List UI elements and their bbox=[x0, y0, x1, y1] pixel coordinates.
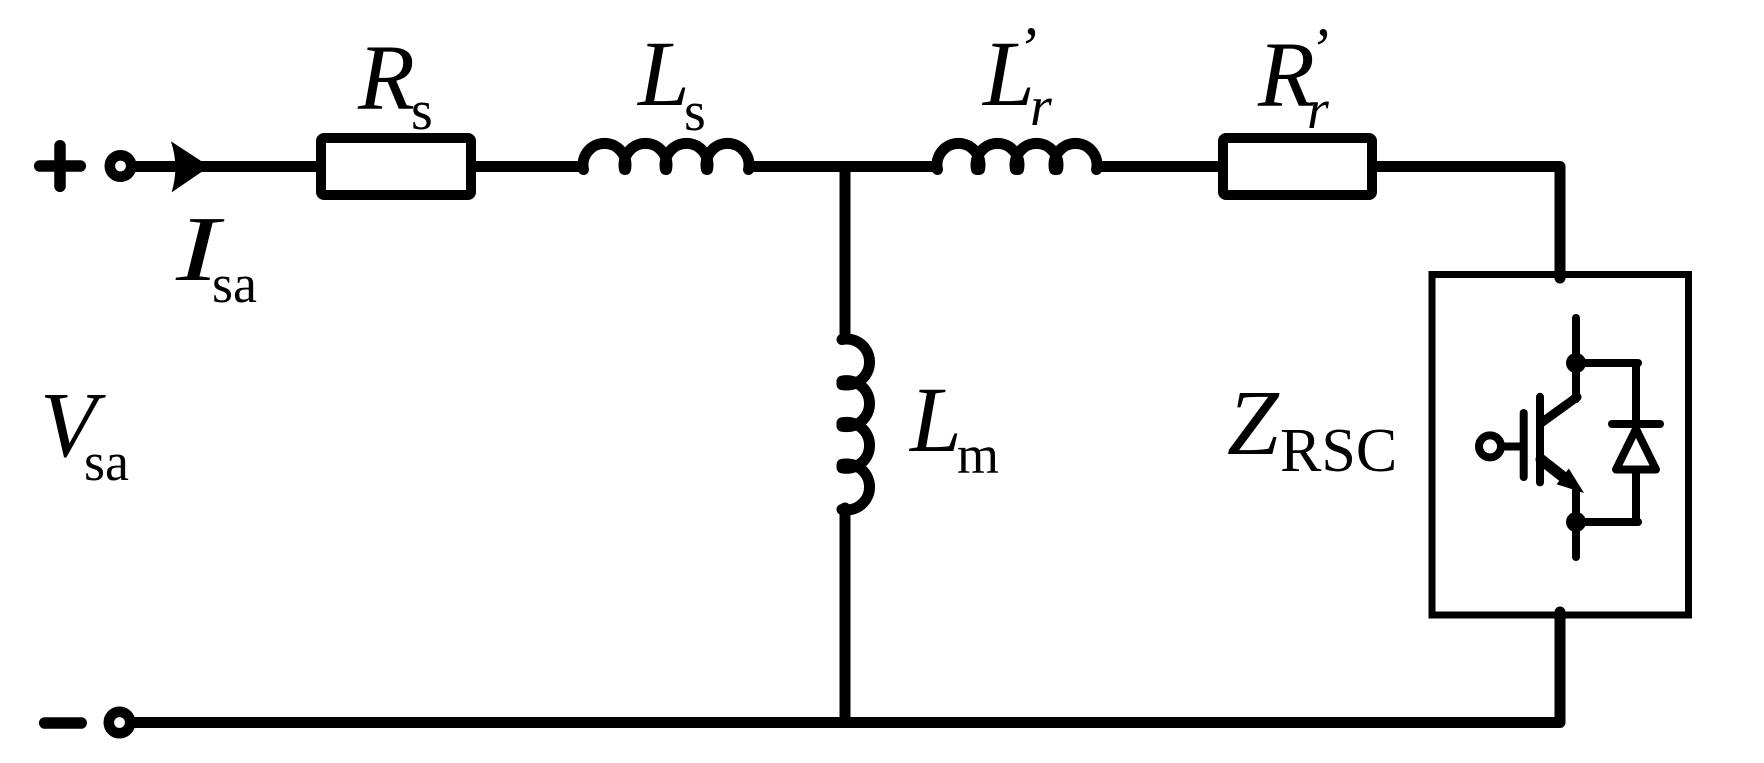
svg-text:r: r bbox=[1030, 76, 1052, 138]
svg-text:sa: sa bbox=[84, 432, 129, 492]
svg-text:m: m bbox=[957, 425, 999, 485]
svg-text:r: r bbox=[1307, 79, 1329, 141]
svg-text:L: L bbox=[908, 369, 962, 472]
svg-text:R: R bbox=[357, 27, 415, 130]
svg-text:s: s bbox=[411, 80, 433, 142]
svg-text:RSC: RSC bbox=[1280, 417, 1397, 485]
svg-text:L: L bbox=[636, 23, 690, 126]
svg-text:’: ’ bbox=[1017, 15, 1037, 81]
svg-text:Z: Z bbox=[1227, 372, 1280, 475]
svg-text:s: s bbox=[684, 81, 706, 143]
svg-text:’: ’ bbox=[1309, 16, 1329, 82]
svg-text:sa: sa bbox=[212, 254, 257, 314]
